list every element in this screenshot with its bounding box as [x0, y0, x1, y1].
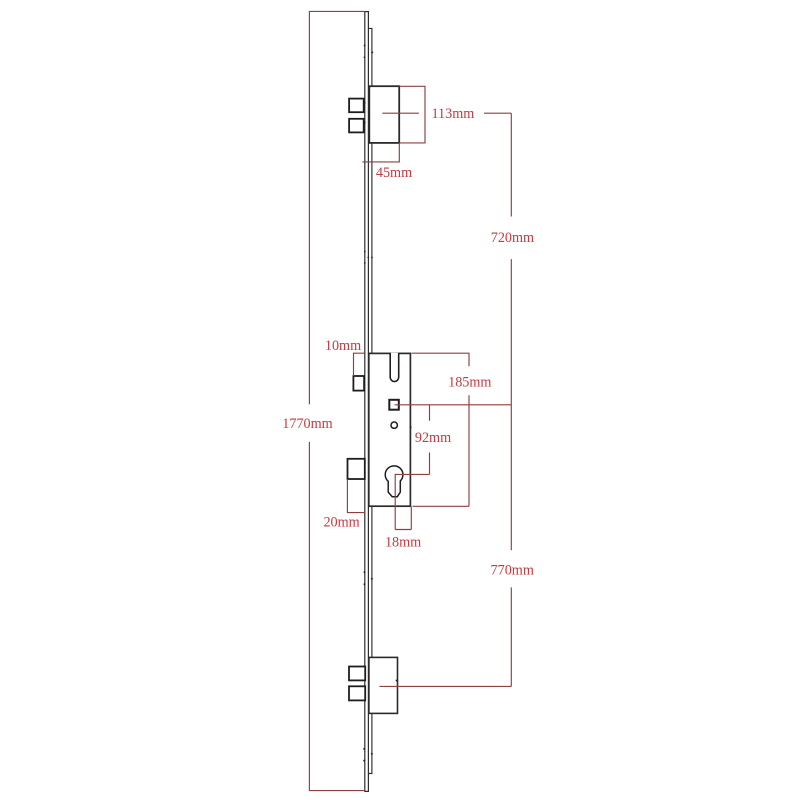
dimension 45mm bracket	[362, 143, 399, 162]
screw mark upper case 2	[364, 122, 366, 124]
dimension 20mm bracket	[347, 479, 365, 513]
svg-text:20mm: 20mm	[323, 514, 359, 530]
screw mark top 1	[364, 45, 366, 47]
screw mark upper case 1	[364, 102, 366, 104]
euro cylinder keyhole	[385, 466, 403, 497]
svg-text:45mm: 45mm	[376, 165, 412, 181]
screw mark upper mid 1	[364, 251, 366, 253]
svg-text:113mm: 113mm	[431, 106, 474, 122]
svg-text:720mm: 720mm	[491, 230, 534, 246]
gearbox case	[369, 353, 411, 506]
screw mark upper mid 4	[364, 262, 366, 264]
svg-text:92mm: 92mm	[415, 430, 451, 446]
bottom lock case	[369, 657, 398, 713]
dimension 18mm bracket	[395, 474, 411, 529]
backplate	[369, 28, 372, 773]
svg-text:770mm: 770mm	[491, 563, 534, 579]
dimension keyhole leader	[395, 473, 430, 475]
gearbox latch bolt upper	[353, 376, 364, 391]
screw mark gearbox right	[410, 426, 412, 428]
faceplate	[365, 12, 369, 792]
dimension 113mm bracket	[399, 86, 425, 143]
gearbox deadbolt lower	[348, 459, 365, 479]
gearbox top slot	[390, 353, 399, 382]
top lock case	[369, 86, 399, 143]
screw mark upper mid 2	[367, 257, 369, 259]
dimension 1770mm bracket	[309, 11, 365, 790]
screw mark mid 3	[364, 583, 366, 585]
screw mark bottom 1	[363, 748, 365, 750]
top hook bolt lower	[349, 119, 364, 133]
dimension 185mm bracket	[412, 353, 469, 506]
dimension 113mm leader left	[382, 112, 419, 114]
dimension follower leader	[395, 404, 512, 406]
screw mark top 3	[364, 56, 366, 58]
svg-text:185mm: 185mm	[448, 375, 491, 391]
spindle follower square hole	[389, 400, 399, 410]
screw mark mid 1	[364, 571, 366, 573]
dimension 92mm line	[429, 405, 431, 475]
screw mark bottom 2	[371, 753, 373, 755]
screw mark bottom 3	[363, 760, 365, 762]
svg-text:18mm: 18mm	[385, 534, 421, 550]
screw mark bottom case	[396, 680, 398, 682]
dimension 113mm leader right	[484, 112, 511, 114]
dimension 720mm line	[510, 113, 512, 405]
fixing hole circle	[391, 422, 397, 428]
dimension bottom case leader	[379, 685, 511, 687]
svg-text:1770mm: 1770mm	[282, 416, 332, 432]
screw mark mid 2	[371, 578, 373, 580]
bottom hook bolt upper	[349, 667, 365, 681]
bottom hook bolt lower	[349, 686, 365, 700]
screw mark upper mid 3	[371, 257, 373, 259]
dimension 770mm line	[510, 405, 512, 687]
dimension 10mm bracket	[354, 353, 366, 376]
screw mark top 2	[371, 51, 373, 53]
top hook bolt upper	[349, 99, 364, 113]
svg-text:10mm: 10mm	[325, 338, 361, 354]
